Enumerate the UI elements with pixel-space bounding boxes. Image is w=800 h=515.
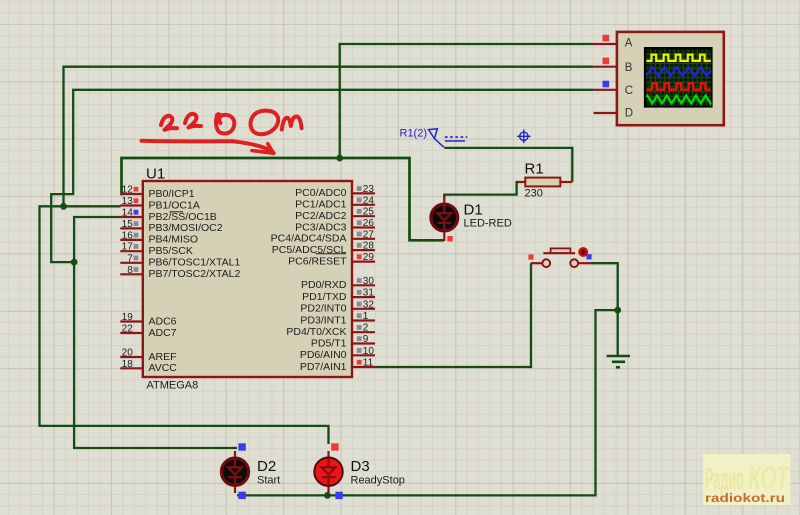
svg-text:PD7/AIN1: PD7/AIN1: [300, 361, 347, 373]
svg-text:230: 230: [525, 188, 543, 200]
svg-text:AREF: AREF: [149, 351, 177, 363]
svg-text:19: 19: [122, 312, 134, 323]
svg-text:15: 15: [122, 219, 134, 230]
svg-text:22: 22: [122, 324, 134, 335]
svg-text:PD6/AIN0: PD6/AIN0: [300, 349, 347, 361]
svg-text:11: 11: [363, 358, 374, 369]
svg-text:1: 1: [363, 311, 369, 322]
svg-text:31: 31: [363, 288, 375, 299]
svg-text:D2: D2: [257, 458, 276, 475]
svg-text:PC4/ADC4/SDA: PC4/ADC4/SDA: [271, 233, 347, 245]
svg-text:PD4/T0/XCK: PD4/T0/XCK: [286, 326, 346, 338]
svg-text:27: 27: [363, 229, 375, 240]
svg-text:30: 30: [363, 276, 375, 287]
svg-text:2: 2: [363, 323, 369, 334]
svg-text:ADC7: ADC7: [149, 327, 177, 339]
svg-text:10: 10: [363, 346, 375, 357]
svg-text:ADC6: ADC6: [149, 315, 177, 327]
svg-text:PC6/RESET: PC6/RESET: [288, 255, 347, 267]
svg-text:25: 25: [363, 207, 375, 218]
svg-text:18: 18: [122, 359, 134, 370]
svg-text:23: 23: [363, 184, 375, 195]
svg-text:КОТ: КОТ: [748, 460, 791, 496]
svg-text:Радио: Радио: [705, 461, 744, 496]
svg-text:7: 7: [127, 253, 133, 264]
svg-text:PB5/SCK: PB5/SCK: [149, 245, 193, 257]
svg-text:B: B: [625, 62, 633, 74]
svg-text:32: 32: [363, 299, 375, 310]
svg-text:16: 16: [122, 230, 134, 241]
svg-text:PB3/MOSI/OC2: PB3/MOSI/OC2: [149, 222, 223, 234]
svg-text:20: 20: [122, 348, 134, 359]
svg-text:C: C: [625, 85, 633, 97]
svg-text:14: 14: [122, 208, 134, 219]
svg-text:PC2/ADC2: PC2/ADC2: [295, 210, 347, 222]
svg-text:PB6/TOSC1/XTAL1: PB6/TOSC1/XTAL1: [149, 257, 241, 269]
svg-text:D: D: [625, 108, 633, 120]
svg-text:PB2/SS/OC1B: PB2/SS/OC1B: [149, 211, 217, 223]
svg-text:PB1/OC1A: PB1/OC1A: [149, 199, 200, 211]
svg-text:9: 9: [363, 334, 369, 345]
svg-text:LED-RED: LED-RED: [464, 218, 512, 230]
svg-text:D3: D3: [351, 458, 370, 475]
svg-text:AVCC: AVCC: [149, 362, 178, 374]
svg-text:U1: U1: [146, 166, 165, 183]
svg-text:PC3/ADC3: PC3/ADC3: [295, 221, 347, 233]
svg-text:PC0/ADC0: PC0/ADC0: [295, 187, 347, 199]
svg-text:26: 26: [363, 218, 375, 229]
svg-text:12: 12: [122, 185, 134, 196]
svg-text:radiokot.ru: radiokot.ru: [705, 493, 785, 505]
svg-text:PD0/RXD: PD0/RXD: [301, 279, 347, 291]
svg-text:ATMEGA8: ATMEGA8: [147, 380, 199, 392]
svg-text:PD3/INT1: PD3/INT1: [300, 314, 346, 326]
svg-text:R1(2): R1(2): [400, 128, 428, 140]
svg-text:PB0/ICP1: PB0/ICP1: [149, 188, 195, 200]
svg-text:PC1/ADC1: PC1/ADC1: [295, 199, 347, 211]
svg-text:PD1/TXD: PD1/TXD: [302, 291, 347, 303]
svg-text:ReadyStop: ReadyStop: [351, 475, 405, 487]
svg-text:A: A: [625, 38, 633, 50]
svg-text:D1: D1: [464, 202, 483, 219]
svg-text:R1: R1: [525, 161, 544, 178]
svg-text:17: 17: [122, 242, 134, 253]
svg-text:PB7/TOSC2/XTAL2: PB7/TOSC2/XTAL2: [149, 268, 241, 280]
svg-text:PD2/INT0: PD2/INT0: [300, 303, 346, 315]
svg-text:29: 29: [363, 252, 375, 263]
svg-text:Start: Start: [257, 475, 280, 487]
svg-text:24: 24: [363, 195, 375, 206]
svg-text:28: 28: [363, 241, 375, 252]
svg-text:8: 8: [127, 265, 133, 276]
svg-text:13: 13: [122, 196, 134, 207]
svg-text:PD5/T1: PD5/T1: [311, 337, 347, 349]
svg-text:PB4/MISO: PB4/MISO: [149, 234, 199, 246]
